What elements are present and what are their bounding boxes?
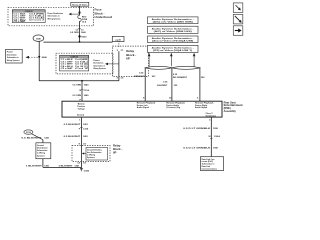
pin C6 connector C9 out of relay block — [77, 163, 86, 165]
splice S030 — [78, 35, 87, 43]
svg-text:I/P: I/P — [113, 150, 117, 154]
wire common audio down — [171, 68, 173, 101]
svg-text:1451: 1451 — [83, 123, 89, 126]
RSE assembly box — [62, 101, 222, 117]
pin 2 connector C9 — [117, 78, 125, 80]
twisted pair lens 2 — [172, 66, 200, 69]
wire ground down from RSE — [80, 117, 82, 168]
pin label remote playback common — [166, 102, 185, 109]
label 0.5 ORN 1040 (feed) — [72, 83, 89, 86]
svg-text:Distribution: Distribution — [37, 147, 48, 150]
wire diagonal from W178 — [32, 134, 43, 140]
label 0.5 ORN 1040 (below C214) — [72, 94, 89, 97]
svg-text:1040: 1040 — [84, 83, 90, 86]
pin P of RSE — [80, 100, 82, 102]
svg-text:M: M — [209, 136, 211, 138]
icon diagonal resize arrow — [233, 14, 243, 24]
svg-text:1040: 1040 — [84, 94, 90, 97]
svg-text:Schematics in: Schematics in — [93, 64, 105, 67]
svg-text:Distribution: Distribution — [93, 62, 104, 65]
annotation arrow from relay wire to note 2 — [105, 63, 119, 66]
wire arrows into reference box — [148, 53, 196, 60]
pin label battery positive voltage — [77, 103, 86, 111]
connector oval W178 — [24, 130, 33, 134]
pin 2 serial — [209, 120, 211, 122]
node S046 junction — [38, 56, 47, 59]
ground G303 — [80, 168, 90, 172]
pins 8 12 5 — [143, 98, 199, 100]
wire horizontal run y=42.5 — [43, 41, 112, 43]
svg-text:1451: 1451 — [83, 135, 89, 138]
svg-text:BLK/WHT: BLK/WHT — [157, 85, 168, 87]
svg-text:1058: 1058 — [213, 148, 219, 150]
svg-text:Crt 2: Crt 2 — [75, 67, 88, 70]
wire bus horizontal — [39, 80, 119, 82]
svg-text:Audio Signal: Audio Signal — [137, 106, 150, 109]
label 0.35 BLK/WHT 120 — [157, 81, 178, 86]
label Rear Seat Entertainment (RSE) Assembly — [224, 100, 243, 113]
node Hot At All Times — [71, 2, 89, 6]
svg-text:1451: 1451 — [74, 164, 80, 167]
svg-text:C24 A: C24 A — [214, 135, 221, 138]
dashed annotation arrow to power distribution box — [25, 56, 37, 59]
audio reference box 3 — [148, 36, 199, 43]
label 0.5 BLK/WHT 1451 — [64, 123, 89, 126]
icon forward arrow — [233, 26, 243, 36]
svg-text:0.5 ORN: 0.5 ORN — [72, 95, 81, 97]
wire from hot feed to fuse — [79, 6, 81, 15]
label Relay Block - I/P — [126, 49, 136, 60]
svg-text:1058: 1058 — [213, 128, 219, 130]
label 3 BLK/WHT 1451 — [59, 164, 81, 167]
pin label ground — [77, 115, 85, 117]
svg-text:Serial Data: Serial Data — [206, 114, 217, 117]
svg-text:Systems: Systems — [87, 156, 95, 159]
label 0.5 ORN 1040 — [70, 31, 86, 34]
wire right audio down — [199, 68, 201, 101]
connector crossing M C24 A — [209, 135, 221, 138]
label 0.5 D LT GRN/BLK 1058 (lower) — [183, 148, 218, 150]
wire oval down to bus — [38, 41, 40, 80]
svg-text:Ground: Ground — [77, 115, 85, 117]
fuse block underhood dashed outline — [8, 7, 94, 26]
svg-text:Crt uses 2: Crt uses 2 — [29, 18, 44, 21]
label 0.35 DK GRN/WHT 369 — [173, 74, 205, 79]
wire jogs to twisted pair — [149, 60, 194, 67]
audio reference box 4 — [148, 45, 199, 52]
svg-text:0.5 D LT GRN/BLK: 0.5 D LT GRN/BLK — [183, 148, 211, 150]
svg-text:DK GRN/WHT: DK GRN/WHT — [173, 77, 188, 79]
connector oval S040 — [33, 35, 44, 42]
pin 3 connector C1 — [117, 50, 125, 52]
pin label class 2 serial data — [206, 113, 217, 117]
connector crossing P C214 (ground) — [79, 127, 89, 130]
svg-text:0.5 ORN: 0.5 ORN — [72, 84, 81, 86]
note box ground distribution (branch) — [36, 143, 51, 159]
audio reference box 2 — [148, 26, 199, 33]
svg-text:C5 = NAT: C5 = NAT — [14, 20, 28, 23]
twisted pair lens 1 — [145, 66, 172, 69]
svg-text:0.5 ORN: 0.5 ORN — [70, 32, 79, 34]
relay block I/P dashed outline — [113, 46, 149, 76]
svg-text:0.5 BLK/WHT: 0.5 BLK/WHT — [64, 136, 81, 138]
wire branch joins ground wire — [43, 166, 82, 168]
svg-text:Schematics: Schematics — [37, 149, 48, 152]
svg-text:(AC) w/ Video (Y91UQA US8): (AC) w/ Video (Y91UQA US8) — [152, 39, 194, 42]
wire battery feed down to RSE — [81, 81, 83, 101]
svg-text:(A/C) w/ Video (UM6 UK6): (A/C) w/ Video (UM6 UK6) — [154, 30, 193, 33]
connector ID table 1 — [12, 10, 45, 23]
svg-text:1451: 1451 — [44, 164, 50, 167]
svg-text:C214: C214 — [83, 127, 89, 130]
svg-text:I/P: I/P — [126, 57, 130, 61]
connector crossing C2 C1 — [76, 29, 85, 32]
svg-text:Wiring Systems: Wiring Systems — [93, 67, 106, 70]
svg-text:(Common) Sig: (Common) Sig — [166, 107, 180, 109]
svg-text:(RZ) w/ Video (UQA US8 Y): (RZ) w/ Video (UQA US8 Y) — [153, 49, 193, 52]
svg-text:Voltage: Voltage — [78, 108, 86, 111]
svg-text:S046: S046 — [42, 56, 48, 59]
svg-text:Wiring Systems: Wiring Systems — [7, 59, 21, 62]
svg-text:1451: 1451 — [44, 137, 50, 140]
svg-text:Assembly: Assembly — [224, 109, 237, 113]
svg-text:Power Distribution: Power Distribution — [48, 12, 64, 15]
data link connector note box — [200, 157, 223, 171]
svg-text:Schematics in: Schematics in — [7, 56, 20, 59]
svg-text:pg 99: pg 99 — [115, 39, 121, 41]
svg-text:Power: Power — [7, 51, 13, 54]
svg-text:Systems: Systems — [37, 154, 45, 157]
wire fuse to splice — [79, 21, 81, 42]
svg-text:Schematics in: Schematics in — [48, 15, 61, 18]
label 1 BLK/WHT 1451 — [26, 164, 50, 167]
page reference box pg 99 — [112, 36, 124, 41]
pin 1 ground — [79, 120, 81, 122]
label 0.5 BLK/WHT 1451 (branch) — [21, 137, 50, 140]
icon open in new (small diagonal arrow) — [233, 3, 243, 13]
svg-text:Distribution: Distribution — [7, 53, 18, 56]
note box ground distribution schematics — [86, 148, 108, 161]
svg-text:3 BLK/WHT: 3 BLK/WHT — [59, 165, 74, 167]
connector ID table 2 — [60, 55, 89, 71]
note box power distribution schematics — [6, 49, 23, 63]
label 0.5 BLK/WHT 1451 (lower) — [64, 135, 89, 138]
label 0.35 BRN/WHT 907 — [134, 73, 156, 78]
svg-text:1 BLK/WHT: 1 BLK/WHT — [26, 165, 43, 167]
svg-text:G303: G303 — [84, 170, 90, 172]
svg-text:Hot at all Times: Hot at all Times — [72, 3, 88, 6]
wire annotation arrow to note — [69, 13, 80, 16]
wire branch down — [42, 140, 44, 168]
note power distribution schematics 2 — [93, 59, 106, 70]
wire left audio down — [144, 68, 146, 101]
svg-text:Audio Signal: Audio Signal — [195, 106, 208, 109]
pin K connector C9 into relay block — [79, 144, 87, 146]
svg-text:0.5 BLK/WHT: 0.5 BLK/WHT — [21, 138, 42, 140]
svg-text:(A/C) w/o Video (UE0 UM6): (A/C) w/o Video (UE0 UM6) — [153, 20, 194, 23]
label Relay Block - I/P (ground run) — [113, 144, 122, 155]
svg-text:S030: S030 — [81, 37, 87, 39]
svg-text:0.5 D LT GRN/BLK: 0.5 D LT GRN/BLK — [183, 128, 211, 130]
wire through relay block — [118, 51, 120, 81]
relay block I/P dashed outline (ground run) — [72, 146, 110, 162]
svg-text:Communications: Communications — [202, 167, 217, 170]
note power distribution schematics (inside fuse block box) — [48, 12, 64, 21]
svg-text:Underhood: Underhood — [95, 15, 113, 19]
pin label remote playback right — [195, 102, 214, 109]
pin label remote playback left — [137, 102, 156, 109]
svg-text:0.5 BLK/WHT: 0.5 BLK/WHT — [64, 124, 81, 126]
label 0.5 D LT GRN/BLK 1058 — [183, 128, 218, 130]
node junction on bus — [81, 80, 83, 82]
svg-text:BRN/WHT: BRN/WHT — [134, 76, 145, 78]
svg-text:10 A: 10 A — [82, 20, 87, 23]
svg-text:1040: 1040 — [81, 31, 87, 34]
svg-text:W178: W178 — [26, 132, 31, 134]
svg-text:Wiring Systems: Wiring Systems — [48, 17, 62, 20]
audio reference box 1 — [148, 17, 199, 24]
fuse RDO 10A — [78, 15, 88, 23]
annotation arrow ground note — [82, 152, 86, 154]
svg-text:C214: C214 — [84, 89, 90, 92]
label Fuse Block - Underhood — [95, 8, 113, 19]
dashed box connector table 2 — [56, 53, 113, 74]
svg-text:Power: Power — [93, 59, 99, 62]
dashed wire from page box into relay block — [118, 41, 120, 48]
connector crossing N C214 — [79, 89, 89, 92]
wire serial data down from RSE — [210, 117, 212, 157]
svg-text:C5 = NAT: C5 = NAT — [61, 67, 75, 70]
